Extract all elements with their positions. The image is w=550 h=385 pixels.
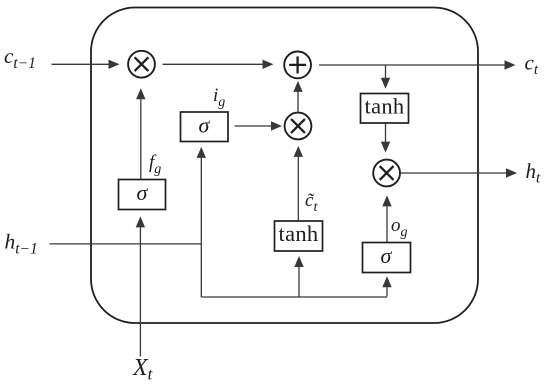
svg-text:og: og [391,215,408,240]
wire sigma o_g box up into multiply node M3 [382,195,391,242]
wire M2 up into add node A1 [293,81,302,112]
svg-text:ct−1: ct−1 [4,44,36,72]
sigma box i_g gate [181,112,229,142]
wire tanh T2 down into multiply node M3 [381,124,390,153]
svg-text:ig: ig [213,85,225,110]
wire vertical riser from bottom bus up into sigma i_g box [197,147,206,297]
sigma box f_g gate [119,180,166,210]
LSTM cell boundary (rounded rectangle) [91,8,478,324]
svg-text:tanh: tanh [365,94,405,119]
wire c_{t-1} input arrow into multiply node M1 [52,60,120,69]
wire tanh T1 up into multiply node M2 [294,146,303,221]
multiply node M3 (circle with X) [373,160,400,187]
wire M3 to h_t output arrow [400,168,517,177]
wire sigma f_g box up into multiply node M1 [136,88,145,179]
multiply node M1 (circle with X) [128,51,155,78]
wire bottom bus horizontal [201,296,387,298]
add node A1 (circle with plus) [284,52,311,79]
svg-text:σ: σ [137,180,149,205]
wire sigma i_g box to multiply node M2 [235,121,283,130]
tanh box T2 (top right) [361,94,409,124]
svg-text:Xt: Xt [132,355,154,384]
svg-text:ct: ct [525,51,539,79]
sigma box o_g gate [363,243,411,273]
wire branch down from c_t line into tanh box T2 [381,65,390,89]
svg-text:σ: σ [381,243,393,268]
wire A1 to c_t output arrow [319,60,516,69]
svg-text:ht−1: ht−1 [5,230,38,258]
svg-text:ht: ht [526,159,542,187]
wire X_t input vertical up into sigma f_g box [136,216,145,356]
svg-text:σ: σ [199,112,211,137]
svg-text:c̃t: c̃t [305,190,318,215]
tanh box T1 (candidate c tilde) [275,221,323,251]
wire h_{t-1} input horizontal [50,243,202,245]
wire bottom bus up into sigma o_g box [382,276,391,296]
wire bottom bus up into tanh T1 box [294,256,303,297]
multiply node M2 (circle with X) [285,113,312,140]
svg-text:tanh: tanh [279,221,319,246]
wire M1 to add node A1 [163,60,274,69]
svg-text:fg: fg [149,152,161,177]
